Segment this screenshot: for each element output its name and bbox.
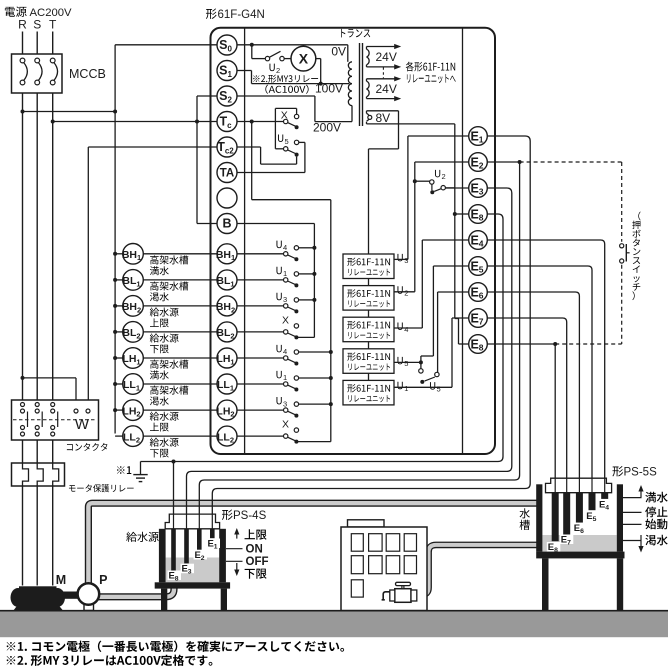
- supply tank legs: [161, 589, 167, 611]
- terminal BH1 on 61F-G4N: [217, 244, 237, 264]
- label: LH1 function: [150, 360, 159, 369]
- wire: branch down to U2 contact: [251, 45, 253, 59]
- svg-text:PS-5S: PS-5S: [624, 467, 658, 479]
- svg-text:4: 4: [404, 325, 408, 334]
- wire: X contact NO to U5 common rail: [296, 108, 298, 114]
- wire: field terminal BH2 to unit terminal BH2: [143, 305, 217, 307]
- label: BL1 function: [150, 281, 159, 290]
- contactor coil W: [74, 409, 78, 413]
- field terminal BL2 (electrode wiring side): [123, 322, 144, 343]
- wire: field terminal LL2 to common riser: [115, 435, 123, 437]
- supply tank right wall: [219, 529, 226, 583]
- wire: Tc2 row to contactor coil: [88, 146, 217, 148]
- wire: U5 NC to Tc2 row: [296, 157, 298, 165]
- svg-text:T: T: [49, 18, 57, 32]
- label: U2 contact near E3: [435, 170, 440, 177]
- node: E8 line to electrode drop: [172, 460, 176, 464]
- wire: field terminal BL1 to unit terminal BL1: [143, 279, 217, 281]
- wire: S2 row to transformer 200V tap: [237, 95, 315, 97]
- electrode E1 (supply tank): [210, 529, 215, 538]
- svg-text:R: R: [18, 18, 27, 32]
- svg-text:24V: 24V: [376, 50, 397, 64]
- wire: E4 to elevated tank electrode E4: [487, 240, 604, 493]
- label: full level: [623, 497, 642, 499]
- contact U5 (E5/E6 line): [419, 369, 423, 373]
- wire: relay U4 to E4: [394, 327, 422, 329]
- wire: E5 to elevated tank electrode E5: [487, 266, 592, 493]
- label: to 61F-11N relay units: [406, 62, 414, 72]
- terminal E4 on 61F-G4N (electrode circuit): [469, 231, 488, 250]
- contact U3 (LH2 row): [237, 409, 284, 411]
- transformer secondary 24V winding 2: [367, 81, 370, 97]
- transformer secondary 8V winding: [367, 113, 370, 121]
- label: U5 contact near relay units: [430, 382, 435, 389]
- pipe: supply tank outlet to pump P: [98, 583, 174, 597]
- svg-text:MCCB: MCCB: [69, 67, 106, 81]
- wire: U5 NO to TA row: [299, 141, 305, 143]
- node: R tap to S0 supply: [21, 110, 25, 114]
- svg-text:1: 1: [404, 384, 408, 393]
- wire: T to Tc row: [53, 121, 217, 123]
- wire: dashed E2 to push-button: [520, 161, 622, 163]
- wire: field terminal BH1 to common riser: [115, 253, 123, 255]
- contactor (magnetic contactor): [12, 400, 99, 440]
- node: S0 branch to relay X circuit: [250, 43, 254, 47]
- label: electrode E1: [207, 539, 221, 549]
- node: R tap to contactor coil: [21, 376, 25, 380]
- svg-text:1: 1: [283, 269, 287, 278]
- label: LL2 function: [150, 438, 159, 447]
- node: X coil to 100V rail: [319, 82, 323, 86]
- label: relay unit U2 output: [397, 286, 402, 293]
- elevated tank legs: [542, 558, 549, 610]
- svg-text:TA: TA: [220, 168, 234, 180]
- faucet valve: [395, 589, 411, 603]
- elevated tank left wall: [536, 484, 542, 551]
- transformer core: [359, 43, 361, 126]
- wire: field terminal LH1 to unit terminal LH1: [143, 357, 217, 359]
- wire: E7 to elevated tank electrode E7: [487, 318, 566, 493]
- supply tank PS-4S cap: [165, 514, 219, 529]
- wire: Tc bus (contact group 2): [330, 200, 332, 442]
- wire: field terminal LH1 to common riser: [115, 357, 123, 359]
- wire: Tc row into unit: [237, 121, 284, 123]
- pump P: [84, 604, 94, 610]
- terminal TA on 61F-G4N: [217, 163, 237, 183]
- terminal Tc2 on 61F-G4N: [217, 137, 237, 157]
- node: junction on Tc row feeding S2 and B: [195, 120, 199, 124]
- label: power source AC200V: [5, 7, 15, 17]
- supply tank water: [166, 558, 220, 583]
- label: relay unit U5 output: [397, 357, 402, 364]
- push-button switch contacts: [620, 244, 624, 248]
- svg-text:P: P: [99, 573, 107, 587]
- terminal LL1 on 61F-G4N: [217, 374, 237, 394]
- circuit breaker MCCB: [12, 54, 63, 93]
- label: note 1 marker: [117, 466, 125, 474]
- label: low water level: [623, 540, 642, 542]
- svg-text:4: 4: [283, 243, 287, 252]
- terminal E5 on 61F-G4N (electrode circuit): [469, 257, 488, 276]
- wire: E3 to supply tank electrode E3: [187, 188, 512, 529]
- relay unit 61F-11N #4 (U5): [343, 349, 394, 374]
- terminal B on 61F-G4N: [217, 214, 237, 234]
- electrode E5 (elevated tank): [589, 493, 596, 511]
- label: LH2 function: [150, 412, 159, 421]
- label: water tank (vertical): [520, 508, 530, 518]
- label: ON level: [226, 548, 243, 550]
- wire: phase S vertical: [36, 32, 38, 586]
- terminal S0 on 61F-G4N: [217, 35, 237, 55]
- field terminal BH1 (electrode wiring side): [123, 244, 144, 265]
- wire: field terminal BH1 to unit terminal BH1: [143, 253, 217, 255]
- svg-text:X: X: [282, 419, 289, 431]
- terminal Tc on 61F-G4N: [217, 112, 237, 132]
- wire: Tc branch to lower contact bus: [251, 122, 253, 200]
- wire: 8V common to E8 (first): [453, 212, 457, 216]
- svg-text:X: X: [299, 50, 309, 66]
- wire: S0 row to transformer 0V tap: [237, 44, 348, 46]
- wire: relay U1 to E7: [394, 386, 452, 388]
- wire: phase T vertical: [52, 32, 54, 586]
- label: relay unit U3 output: [397, 254, 402, 261]
- terminal strip separator line left: [244, 28, 246, 454]
- wire: E8 common link to second E8: [454, 214, 456, 319]
- wire: dashed push-button riser: [621, 162, 623, 242]
- wire: phase R vertical (source to MCCB to contactor to motor): [22, 32, 24, 586]
- field terminal LH2 (electrode wiring side): [123, 400, 144, 421]
- contact U1 (LL1 row): [237, 383, 284, 385]
- contact U1 (BL1 row): [237, 279, 284, 281]
- label: BH1 function: [150, 255, 159, 264]
- terminal E7 on 61F-G4N (electrode circuit): [469, 309, 488, 328]
- terminal E3 on 61F-G4N (electrode circuit): [469, 179, 488, 198]
- label: relay unit U4 output: [397, 322, 402, 329]
- node: U2 contact tap on E2 line: [413, 179, 417, 183]
- wire: field terminal LH2 to common riser: [115, 409, 123, 411]
- wire: S1 row to transformer 100V tap: [237, 70, 252, 72]
- contact X (BL2 row): [237, 331, 284, 333]
- svg-text:5: 5: [404, 359, 408, 368]
- label: PS-4S model: [222, 510, 233, 520]
- wire: TA row: [237, 172, 305, 174]
- wire: field terminal LL1 to common riser: [115, 383, 123, 385]
- svg-text:3: 3: [283, 295, 287, 304]
- svg-text:2: 2: [442, 172, 446, 181]
- terminal BH2 on 61F-G4N: [217, 296, 237, 316]
- label: electrode E5: [585, 511, 599, 521]
- electrode E8 (supply tank, common/longest): [171, 529, 176, 578]
- supply tank left wall: [159, 529, 166, 583]
- ground symbol (earth for common electrode): [140, 462, 142, 475]
- terminal LL2 on 61F-G4N: [217, 426, 237, 446]
- electrode E7 (elevated tank): [563, 493, 570, 536]
- label: BH2 function: [150, 307, 159, 316]
- wire: E8 (second) to elevated tank electrode E8: [487, 343, 555, 345]
- pipe: pump P discharge to elevated tank: [88, 503, 541, 585]
- contact U3 (BH2 row): [237, 305, 284, 307]
- wire: field terminal BH2 to common riser: [115, 305, 123, 307]
- wire: dashed link between 24V windings: [382, 67, 384, 78]
- svg-text:M: M: [56, 573, 66, 587]
- wire: field terminal BL2 to common riser: [115, 331, 123, 333]
- svg-text:S: S: [33, 18, 41, 32]
- terminal BL1 on 61F-G4N: [217, 270, 237, 290]
- wire: relay U3 to E1: [394, 258, 408, 260]
- pipe: elevated tank outlet to building faucet: [417, 545, 543, 595]
- svg-text:2: 2: [276, 66, 280, 75]
- wire: R to contactor coil W: [23, 377, 77, 379]
- transformer: [341, 29, 345, 37]
- elevated tank right wall: [617, 484, 623, 551]
- label: start level: [623, 523, 642, 525]
- svg-text:2: 2: [404, 289, 408, 298]
- contact U2 (E3 line): [415, 180, 430, 182]
- wire: 8V line down to E8 common: [454, 124, 456, 214]
- wire: field terminal LH2 to unit terminal LH2: [143, 409, 217, 411]
- node: Tc branch junction: [250, 120, 254, 124]
- wire: field terminal LL2 to unit terminal LL2: [143, 435, 217, 437]
- label: contactor: [67, 444, 73, 450]
- label: electrode E7: [560, 535, 574, 545]
- contact U5 (pump circuit): [284, 147, 288, 151]
- elevated tank water: [542, 535, 616, 552]
- label: lower limit with arrow: [236, 563, 238, 574]
- terminal E8 on 61F-G4N (electrode circuit): [469, 335, 488, 354]
- label: electrode E8: [168, 571, 182, 581]
- relay unit 61F-11N #5 (U1): [343, 380, 394, 405]
- svg-text:1: 1: [283, 373, 287, 382]
- relay coil X (MY3 relay): [284, 58, 291, 60]
- transformer secondary 24V winding 1: [367, 49, 370, 65]
- terminal E1 on 61F-G4N (electrode circuit): [469, 127, 488, 146]
- building with faucet: [348, 520, 385, 527]
- field terminal LH1 (electrode wiring side): [123, 348, 144, 369]
- terminal E6 on 61F-G4N (electrode circuit): [469, 283, 488, 302]
- elevated tank PS-5S cap: [546, 478, 612, 493]
- svg-text:ON: ON: [246, 544, 263, 556]
- wire: relay U5 output junction: [394, 361, 421, 363]
- svg-text:200V: 200V: [313, 121, 341, 135]
- label: BL2 function: [150, 333, 159, 342]
- terminal (unused) on 61F-G4N: [217, 188, 237, 208]
- contact U4 (LH1 row): [237, 357, 284, 359]
- svg-text:5: 5: [285, 137, 289, 146]
- wire: E6 to U5 contact NO: [438, 291, 469, 293]
- svg-text:X: X: [282, 314, 289, 326]
- label: electrode E2: [194, 550, 208, 560]
- label: U2 contact: [269, 64, 274, 71]
- wire: R to S0 feed riser: [23, 111, 116, 113]
- svg-text:B: B: [222, 217, 231, 231]
- svg-text:4: 4: [283, 347, 287, 356]
- contact U2 (MY3 relay contact): [265, 56, 269, 60]
- svg-text:5: 5: [437, 385, 441, 394]
- wire: B common bus (terminal B to contact group 1): [237, 223, 314, 225]
- field terminal BL1 (electrode wiring side): [123, 270, 144, 291]
- terminal LH1 on 61F-G4N: [217, 348, 237, 368]
- node: T tap to Tc/S2/B bus: [51, 120, 55, 124]
- wire: S2/B common riser: [196, 96, 198, 224]
- svg-text:OFF: OFF: [246, 556, 269, 568]
- field terminal LL1 (electrode wiring side): [123, 374, 144, 395]
- terminal BL2 on 61F-G4N: [217, 322, 237, 342]
- label: note2 MY3 relay: [253, 75, 259, 81]
- motor protection relay (thermal overload): [12, 463, 65, 486]
- svg-text:8V: 8V: [376, 111, 391, 125]
- label: electrode E6: [573, 523, 587, 533]
- wire: electrode leads through elevated tank cap: [554, 478, 556, 493]
- wire: U2 contact to E3: [445, 187, 455, 189]
- electrode E3 (supply tank): [184, 529, 189, 564]
- node: E2 push-button tap: [518, 160, 522, 164]
- terminal strip separator line right: [462, 28, 464, 454]
- label: OFF level: [226, 560, 243, 562]
- terminal E8 on 61F-G4N (electrode circuit): [469, 205, 488, 224]
- relay unit 61F-11N #3 (U4): [343, 317, 394, 342]
- label: 61F-G4N model: [206, 9, 217, 19]
- contact U4 (BH1 row): [237, 253, 284, 255]
- electrode E4 (elevated tank): [601, 493, 608, 499]
- contact X (pump circuit): [284, 119, 288, 123]
- svg-text:PS-4S: PS-4S: [233, 510, 267, 522]
- label: electrode E8 (elevated): [547, 542, 561, 552]
- field terminal BH2 (electrode wiring side): [123, 296, 144, 317]
- supply tank bottom: [155, 582, 230, 588]
- terminal E2 on 61F-G4N (electrode circuit): [469, 153, 488, 172]
- label: electrode E4: [598, 500, 612, 510]
- wire: electrode leads through supply tank cap: [173, 514, 175, 529]
- transformer primary winding: [348, 62, 352, 106]
- label: electrode E3: [181, 564, 195, 574]
- label: footnote 2 (MY3 relay rating): [7, 656, 16, 665]
- motor M: [11, 588, 26, 607]
- label: motor protection relay: [69, 485, 76, 491]
- wire: field terminal BL2 to unit terminal BL2: [143, 331, 217, 333]
- svg-text:0V: 0V: [331, 45, 346, 59]
- svg-text:61F-G4N: 61F-G4N: [218, 9, 265, 21]
- svg-text:24V: 24V: [376, 82, 397, 96]
- wire: E1 to supply tank electrode E1: [212, 136, 530, 529]
- label: stop level: [623, 511, 642, 513]
- label: U5 contact: [278, 134, 283, 141]
- label: LL1 function: [150, 386, 159, 395]
- wire: S0 row feed: [115, 44, 217, 46]
- terminal S1 on 61F-G4N: [217, 61, 237, 81]
- label: supply source: [126, 532, 137, 542]
- wire: field terminal BL1 to common riser: [115, 279, 123, 281]
- wire: E2 to supply tank electrode E2: [199, 162, 519, 529]
- label: footnote 1 (earth the common electrode): [7, 642, 16, 651]
- svg-text:W: W: [75, 416, 90, 433]
- wire: E5 to U5 contact common: [433, 265, 468, 267]
- relay unit 61F-11N #1 (U3): [343, 254, 394, 279]
- terminal S2 on 61F-G4N: [217, 86, 237, 106]
- wire: E6 to elevated tank electrode E6: [487, 292, 579, 493]
- controller unit 61F-G4N outline: [211, 28, 496, 454]
- wire: relay U2 to E2: [394, 291, 415, 293]
- electrode E8 (elevated tank, common/longest): [552, 493, 559, 542]
- terminal LH2 on 61F-G4N: [217, 400, 237, 420]
- electrode E2 (supply tank): [197, 529, 202, 550]
- wire: E8 to supply tank electrode E8 and earth: [141, 214, 504, 462]
- label: upper limit with arrow: [236, 531, 238, 539]
- ground plane (earth hatching band): [0, 611, 668, 638]
- electrode E6 (elevated tank): [576, 493, 583, 523]
- svg-text:3: 3: [283, 399, 287, 408]
- label: PS-5S model: [612, 466, 623, 476]
- label: relay unit U1 output: [397, 382, 402, 389]
- contact X (LL2 row): [237, 435, 284, 437]
- elevated tank bottom: [536, 552, 624, 559]
- wire: dashed push-button to E8 line: [555, 343, 622, 345]
- wire: field terminal LL1 to unit terminal LL1: [143, 383, 217, 385]
- wire: 8V supply to relay unit chain: [398, 111, 400, 149]
- svg-text:X: X: [281, 109, 288, 121]
- svg-text:100V: 100V: [315, 82, 343, 96]
- relay unit 61F-11N #2 (U2): [343, 286, 394, 311]
- field terminal LL2 (electrode wiring side): [123, 426, 144, 447]
- label: push-button switch (vertical): [638, 212, 640, 221]
